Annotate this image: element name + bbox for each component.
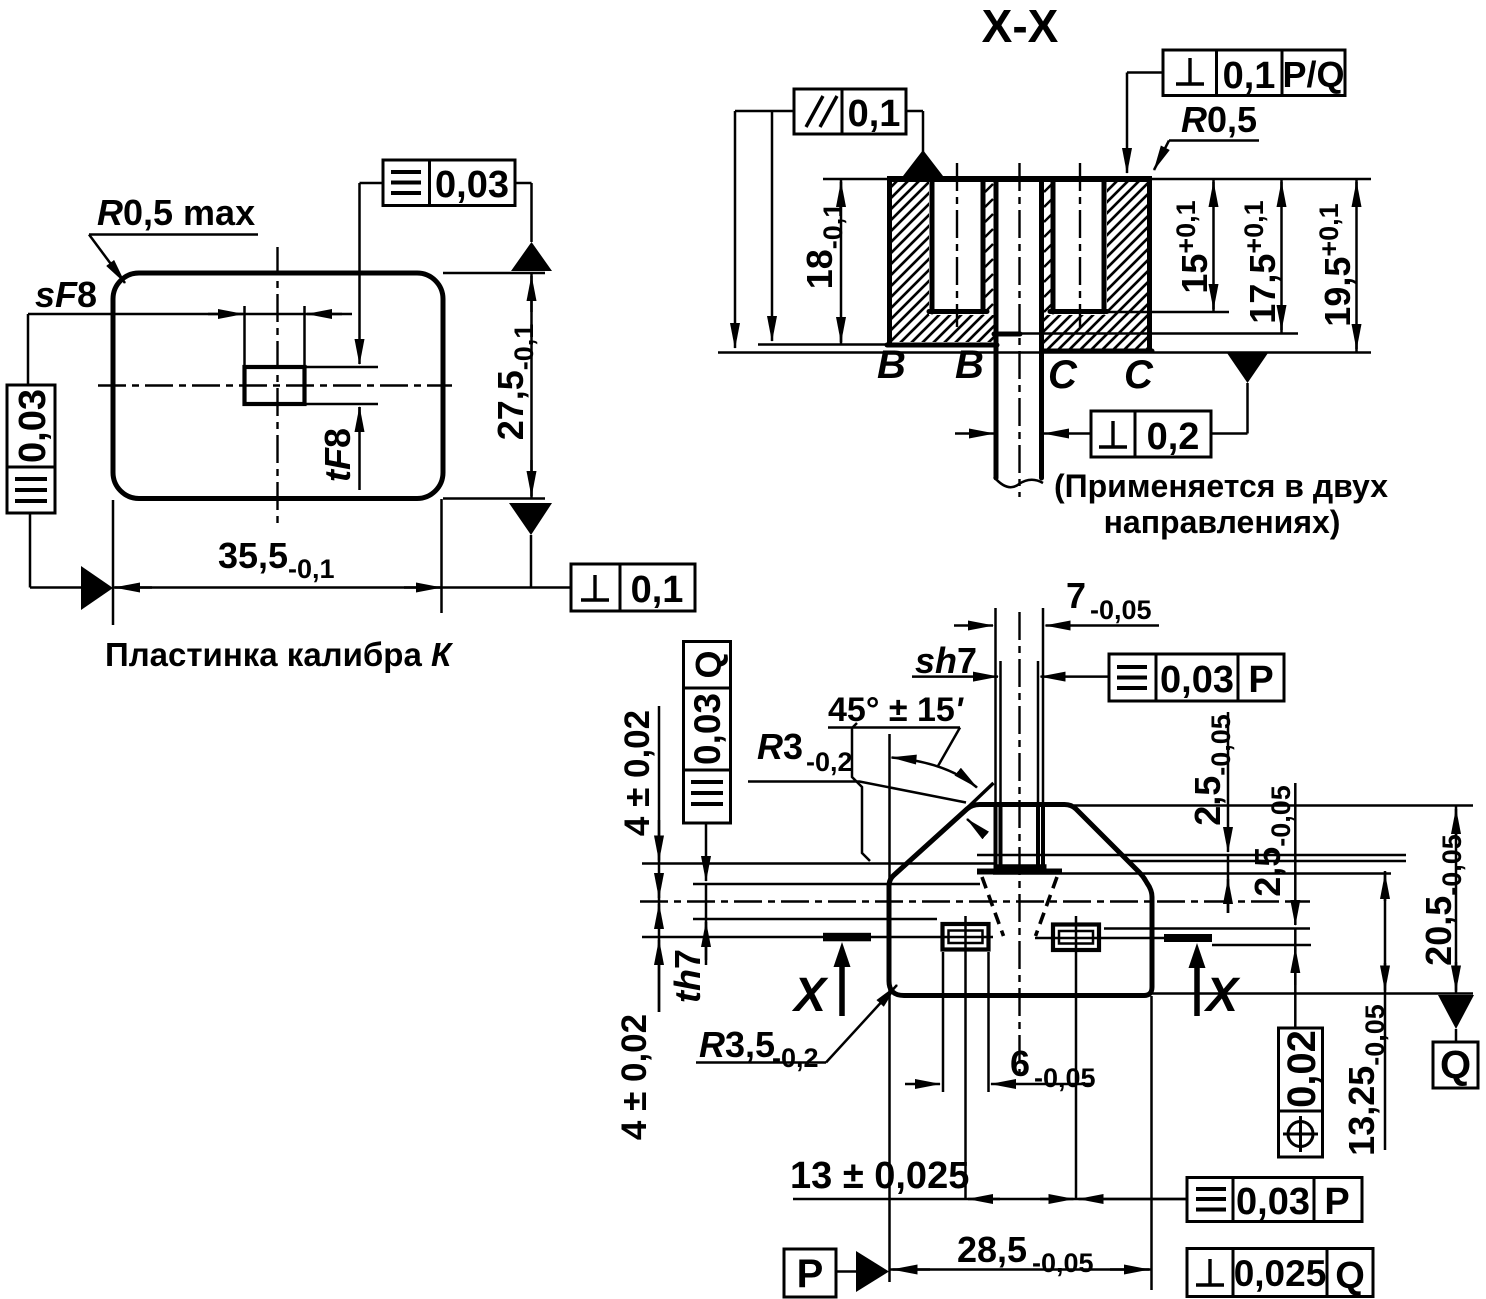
slot extension lines up — [245, 306, 305, 367]
tolerance frame = 0,03 P — [1109, 654, 1284, 701]
connector sF8 to left frame — [27, 314, 30, 385]
body top edge — [887, 176, 1152, 182]
svg-text:6: 6 — [1010, 1043, 1030, 1084]
dim 2,5 second — [1247, 783, 1296, 1028]
svg-text:-0,05: -0,05 — [1032, 1248, 1094, 1278]
svg-text:4 ± 0,02: 4 ± 0,02 — [618, 710, 657, 836]
body bottom edge left part — [887, 343, 997, 348]
middle slot / stem left wall — [994, 181, 999, 478]
tolerance frame perpendicularity 0,025 Q — [1187, 1249, 1373, 1298]
datum Q box — [1433, 1029, 1478, 1088]
svg-text:B: B — [955, 343, 984, 387]
connector frame to datum triangle — [906, 111, 923, 152]
svg-text:7: 7 — [1066, 575, 1086, 616]
middle slot bottom extension right — [1020, 332, 1298, 335]
datum triangle below baseline (filled) — [1227, 353, 1268, 383]
svg-text:C: C — [1124, 353, 1154, 397]
dim 13 ± 0,025 — [790, 1155, 1186, 1199]
dim R3,5 -0,2 — [696, 985, 897, 1073]
left rect edge verticals — [943, 952, 989, 1092]
datum P box — [784, 1249, 856, 1297]
dim 4 lower — [615, 879, 659, 1140]
tolerance frame perpendicularity 0,1 P/Q — [1163, 50, 1345, 97]
extension line y873 right — [993, 872, 1391, 875]
svg-text:X: X — [791, 969, 829, 1022]
stem break line — [994, 477, 1043, 487]
middle slot / stem right wall — [1039, 181, 1044, 478]
slot extension lines above (sh7) — [1001, 661, 1039, 806]
vertical centerline of slot — [1018, 612, 1020, 1082]
svg-text:28,5: 28,5 — [957, 1229, 1027, 1270]
connector top frame to tF8 arrow — [360, 183, 384, 364]
frame leader and th7 dim — [667, 823, 708, 1003]
datum P extension line — [888, 734, 891, 1282]
left gauging slot rectangle — [943, 924, 989, 950]
chamfer extension line — [962, 783, 994, 813]
svg-text:Пластинка калибра К: Пластинка калибра К — [105, 636, 454, 673]
dim 13,25 — [1341, 871, 1390, 1156]
extension line y855 right — [977, 854, 1406, 857]
27,5 -0,1 text rotated — [490, 324, 539, 441]
extension line y928 right — [1104, 927, 1310, 930]
left tolerance frame 0,03 / symmetry — [7, 385, 55, 513]
section title X-X — [982, 0, 1059, 52]
svg-text:P: P — [797, 1252, 824, 1296]
centerline slot B — [956, 163, 958, 327]
connector top frame to triangle — [515, 183, 532, 242]
tolerance frame perpendicularity 0,1 — [571, 564, 695, 611]
svg-text:-0,05: -0,05 — [1090, 595, 1152, 625]
centerline slot C — [1079, 163, 1081, 327]
svg-text:(Применяется в двух: (Применяется в двух — [1054, 468, 1388, 504]
datum arrow left (filled) — [81, 566, 113, 610]
left extension line of plate — [112, 500, 115, 625]
svg-text:Q: Q — [1335, 1255, 1365, 1297]
leader arrow to bottom surface — [771, 111, 774, 341]
extension line y945 right — [1212, 944, 1311, 947]
extension line y805 right — [1074, 804, 1473, 807]
plate horizontal centerline — [98, 384, 452, 386]
dim R3 -0,2 — [748, 726, 984, 834]
left rect center vertical — [964, 916, 967, 1199]
centerline middle slot — [1018, 163, 1020, 497]
datum triangle bottom (filled) — [509, 503, 552, 535]
dim 17,5 +0,1 — [1239, 179, 1283, 334]
section arrow left — [834, 942, 851, 1016]
svg-text:0,1: 0,1 — [848, 93, 901, 135]
label B — [877, 343, 906, 387]
right edge extension vertical — [1150, 996, 1153, 1290]
hatch right wall L-shape — [1044, 182, 1147, 349]
svg-text:-0,1: -0,1 — [288, 554, 335, 584]
svg-text:sF8: sF8 — [35, 274, 97, 315]
hatch left wall L-shape — [892, 182, 994, 342]
slot extension lines right — [306, 367, 378, 404]
slot extension lines above (7) — [996, 608, 1044, 806]
note text — [1054, 468, 1388, 540]
bottom edge extension to Q — [1152, 992, 1473, 995]
svg-text:X-X: X-X — [982, 0, 1059, 52]
svg-text:4 ± 0,02: 4 ± 0,02 — [615, 1014, 654, 1140]
section mark X right (thick bar) — [1164, 934, 1212, 942]
extension line y863 left — [642, 862, 994, 865]
phantom mating profile — [852, 723, 870, 861]
svg-text:tF8: tF8 — [317, 428, 358, 482]
slot C right side — [1102, 181, 1107, 312]
slot axis line left y937 — [642, 936, 993, 939]
dim 2,5 first — [1187, 712, 1236, 913]
slot bottom — [977, 867, 1062, 872]
parallelism frame // 0,1 — [794, 89, 906, 135]
svg-text:0,1: 0,1 — [1223, 55, 1276, 97]
sF8 dimension line — [28, 313, 352, 316]
right outer wall — [1147, 179, 1152, 351]
svg-text:0,02: 0,02 — [1280, 1030, 1324, 1108]
svg-text:0,03: 0,03 — [1236, 1181, 1310, 1223]
svg-text:0,025: 0,025 — [1234, 1253, 1327, 1294]
dim 7 -0,05 — [954, 575, 1159, 626]
connector frame to left leader lines — [735, 110, 794, 113]
slot window in plate — [245, 367, 305, 404]
caption — [105, 636, 454, 673]
tolerance frame = 0,03 (top) — [383, 160, 515, 206]
svg-text:-0,05: -0,05 — [1034, 1063, 1096, 1093]
dim 28,5 -0,05 — [890, 1229, 1152, 1278]
svg-text:0,03: 0,03 — [12, 389, 54, 463]
leader arrow to baseline — [734, 111, 737, 348]
letter X left — [791, 969, 829, 1022]
extension line y884 left — [693, 883, 980, 886]
extension line y861 right — [1129, 860, 1406, 863]
35,5 -0,1 text — [218, 535, 335, 584]
tF8 text rotated — [317, 428, 358, 482]
top edge extensions thin — [823, 178, 1371, 181]
plate body outline — [113, 273, 443, 499]
dim 6 -0,05 — [905, 1043, 1096, 1093]
dim sh7 — [912, 640, 1109, 681]
slot C bottom — [1050, 309, 1107, 314]
svg-text:45° ± 15': 45° ± 15' — [828, 691, 965, 729]
connector P/Q frame to top edge — [1127, 73, 1163, 174]
hidden dovetail right — [1036, 877, 1058, 936]
dim 20,5 — [1418, 806, 1467, 994]
tolerance frame = 0,03 P (lower) — [1187, 1178, 1362, 1224]
svg-text:0,03: 0,03 — [435, 164, 509, 206]
part outline — [889, 805, 1152, 996]
svg-text:R0,5 max: R0,5 max — [97, 192, 255, 233]
svg-text:0,03: 0,03 — [687, 693, 728, 765]
stem width leader arrows — [955, 432, 1091, 435]
slot B left side — [930, 181, 935, 312]
position tolerance frame 0,02 (vertical) — [1279, 1028, 1325, 1157]
connector datum to frame 0,2 — [1211, 383, 1248, 434]
middle slot bottom step — [994, 332, 1020, 337]
datum triangle on top edge (filled) — [903, 150, 943, 176]
tolerance frame perpendicularity 0,2 — [1091, 411, 1211, 458]
slot C left side — [1051, 181, 1056, 312]
datum Q triangle (filled) — [1438, 995, 1474, 1029]
svg-text:Q: Q — [688, 650, 729, 678]
hatch strip between middle slot and C — [1044, 184, 1052, 312]
datum triangle on top edge (filled) — [511, 242, 552, 271]
svg-text:P: P — [1248, 659, 1273, 701]
top edge extension to dim — [443, 273, 545, 499]
svg-text:направлениях): направлениях) — [1104, 504, 1341, 540]
svg-text:R3,5: R3,5 — [699, 1024, 775, 1065]
hatch strip between B and middle slot — [985, 184, 993, 312]
sF8 label — [35, 274, 97, 315]
R0,5 max label and leader — [89, 192, 258, 283]
tolerance frame = 0,03 Q (vertical) — [684, 642, 731, 824]
slot outer edges (7) inside part — [996, 806, 1044, 869]
letter X right — [1203, 969, 1241, 1022]
svg-text:-0,2: -0,2 — [772, 1043, 819, 1073]
label C — [1124, 353, 1154, 397]
dim 4 upper — [618, 706, 659, 925]
svg-text:R0,5: R0,5 — [1181, 99, 1257, 140]
svg-text:X: X — [1203, 969, 1241, 1022]
svg-text:-0,2: -0,2 — [806, 747, 853, 777]
slot B right side — [981, 181, 986, 312]
label C — [1048, 353, 1078, 397]
dim 45 degrees — [828, 691, 977, 788]
seating baseline — [718, 351, 1371, 354]
connector left frame to 35,5 line — [30, 513, 83, 588]
right extension line of plate — [440, 499, 443, 613]
svg-text:0,2: 0,2 — [1147, 416, 1200, 458]
slot B bottom — [929, 309, 987, 314]
R0,5 label — [1154, 99, 1259, 170]
svg-text:P: P — [1324, 1181, 1349, 1223]
svg-text:sh7: sh7 — [915, 640, 977, 681]
slot C bottom extension right — [1107, 311, 1229, 314]
section mark X left (thick bar) — [823, 933, 871, 942]
body bottom edge right part — [1042, 349, 1153, 354]
section arrow right — [1189, 943, 1206, 1016]
plate vertical centerline — [276, 247, 278, 523]
slot axis line right y938 — [1035, 937, 1164, 940]
svg-text:Q: Q — [1440, 1043, 1471, 1087]
svg-text:R3: R3 — [757, 726, 803, 767]
right gauging slot rectangle — [1053, 925, 1099, 951]
svg-text:35,5: 35,5 — [218, 535, 288, 576]
svg-text:0,03: 0,03 — [1160, 659, 1234, 701]
svg-text:C: C — [1048, 353, 1078, 397]
svg-text:0,1: 0,1 — [631, 569, 684, 611]
dim 19,5 +0,1 — [1314, 179, 1358, 353]
extension line y919 left — [693, 918, 937, 921]
svg-text:th7: th7 — [667, 949, 708, 1003]
27,5 dimension line — [530, 273, 533, 499]
svg-text:B: B — [877, 343, 906, 387]
dim 18 -0,1 — [799, 179, 848, 345]
svg-text:P/Q: P/Q — [1282, 54, 1344, 95]
horizontal centerline — [640, 900, 1310, 902]
datum P triangle (filled) — [856, 1251, 889, 1292]
slot inner edges (sh7) inside part — [1001, 806, 1039, 869]
35,5 dimension line — [113, 586, 571, 589]
right rect center vertical — [1075, 916, 1078, 1199]
connector bottom triangle to 35,5 line — [530, 535, 533, 588]
label B — [955, 343, 984, 387]
left outer wall — [887, 179, 892, 345]
svg-text:13 ± 0,025: 13 ± 0,025 — [790, 1155, 969, 1197]
hidden dovetail left — [982, 877, 1004, 936]
tF8 lower arrow and line — [358, 407, 361, 490]
bottom-left surface extension — [758, 343, 887, 346]
dim 15 +0,1 — [1171, 179, 1215, 312]
